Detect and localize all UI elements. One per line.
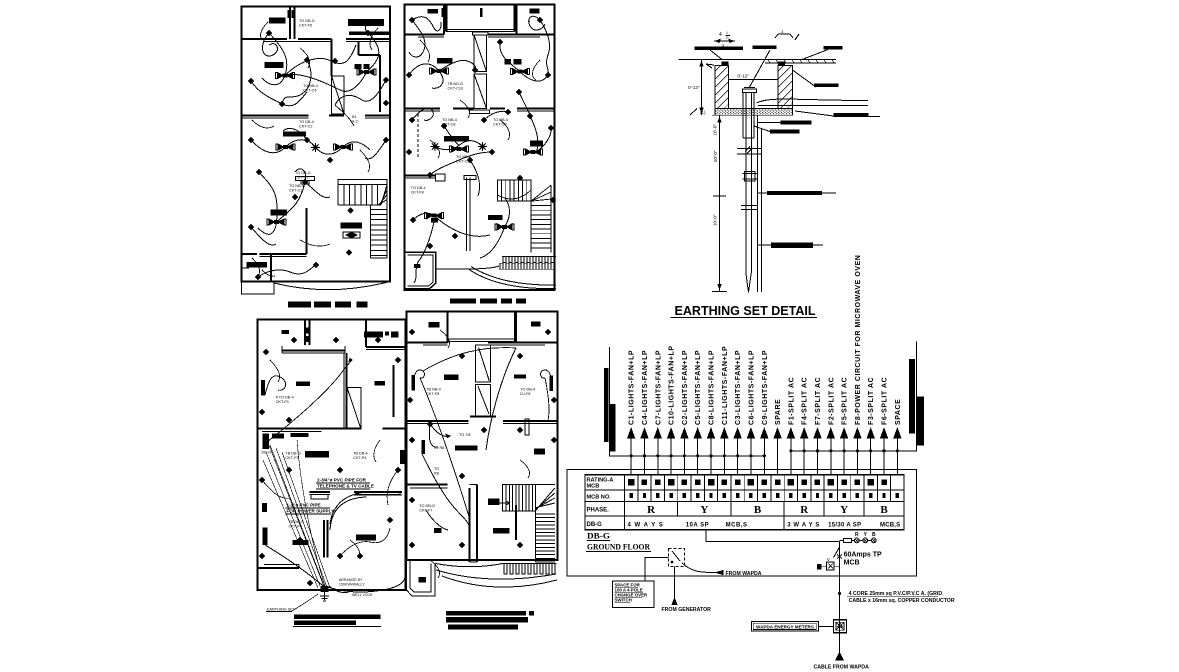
svg-text:F8-POWER CIRCUIT FOR MICROWAVE: F8-POWER CIRCUIT FOR MICROWAVE OVEN — [855, 255, 862, 425]
svg-text:CKT-C8: CKT-C8 — [442, 123, 456, 127]
top label bar right — [824, 46, 843, 50]
pipe taper point — [746, 273, 752, 293]
pit left wall (hatched) — [715, 66, 729, 109]
svg-text:Y: Y — [840, 504, 848, 516]
svg-text:Y: Y — [700, 504, 708, 516]
plan3 title bars — [294, 615, 380, 620]
circuit SPACE arrow — [896, 438, 898, 475]
plan1 ceiling fan F3 — [276, 144, 295, 150]
svg-text:TB NB-9: TB NB-9 — [426, 388, 441, 392]
plan3 entry walls top — [304, 320, 306, 346]
svg-text:TB ND-G: TB ND-G — [448, 82, 464, 86]
incoming cable arrow — [836, 653, 844, 661]
svg-text:MCB,S: MCB,S — [880, 523, 900, 529]
svg-text:WAPDA ENERGY METERS: WAPDA ENERGY METERS — [756, 624, 814, 629]
svg-text:10'-0": 10'-0" — [713, 124, 718, 136]
circuit F2 arrow — [830, 438, 832, 475]
circuit C11 arrow — [723, 438, 725, 475]
circuit F5 arrow — [843, 438, 845, 475]
plan1 outer wall — [242, 7, 391, 282]
plan2 top-right room — [516, 5, 518, 35]
plan3 top-right room — [365, 320, 367, 348]
plan2 porch columns — [444, 5, 448, 32]
svg-text:R: R — [647, 504, 656, 516]
circuit C7 arrow — [657, 438, 659, 475]
plan2 mid wall — [405, 108, 441, 110]
left dim 0-13 — [701, 60, 703, 116]
svg-text:C9-LIGHTS-FAN+LP: C9-LIGHTS-FAN+LP — [762, 350, 769, 425]
break symbol — [737, 149, 761, 155]
svg-text:R8: R8 — [434, 472, 439, 476]
60A TP MCB breaker — [834, 547, 840, 558]
plan3 mid wall 1 — [258, 428, 346, 430]
label bar: gi pipe — [767, 191, 822, 195]
plan3 earthing leader — [265, 545, 322, 585]
plan3 switch diamonds — [264, 350, 269, 355]
svg-text:A.C: A.C — [352, 120, 359, 124]
svg-text:TO DB-4: TO DB-4 — [411, 186, 426, 190]
circuit SPARE arrow — [777, 438, 779, 475]
svg-text:CKT-C2: CKT-C2 — [299, 125, 313, 129]
plan1 wiring — [262, 33, 277, 56]
svg-text:TO: TO — [434, 467, 439, 471]
svg-text:C7-LIGHTS-FAN+LP: C7-LIGHTS-FAN+LP — [655, 350, 662, 425]
fuse symbol — [844, 538, 852, 542]
plan1 entrance arc — [274, 282, 390, 290]
svg-text:C1-LIGHTS-FAN+LP: C1-LIGHTS-FAN+LP — [629, 350, 636, 425]
svg-text:4: 4 — [719, 32, 722, 38]
plan3 earth pit symbol — [321, 586, 329, 592]
svg-text:TB DB-G: TB DB-G — [289, 520, 304, 524]
svg-text:MCB: MCB — [844, 560, 860, 567]
R Y B phase links — [854, 538, 859, 543]
svg-text:CKT-F3: CKT-F3 — [285, 456, 298, 460]
plan1 wall: right room — [359, 54, 381, 56]
svg-text:TB DB-4: TB DB-4 — [353, 452, 368, 456]
wapda energy meter label box — [751, 621, 818, 631]
plan3 hall vertical wall — [346, 353, 348, 429]
plan4 lower-left partition — [407, 484, 448, 486]
floor plan: first floor power layout (bottom-right) — [407, 312, 558, 630]
plan3 kitchen counter — [291, 433, 309, 437]
plan3 curved wall arcs — [330, 492, 367, 524]
plan1 ceiling fan F2 — [357, 69, 376, 75]
plan1 title bars — [288, 302, 311, 308]
feeder riser bars left — [604, 368, 609, 442]
svg-text:F5-SPLIT AC: F5-SPLIT AC — [842, 377, 849, 425]
plan3 outer wall — [258, 320, 406, 591]
cable spec note — [838, 592, 841, 595]
svg-text:TO DB-G: TO DB-G — [419, 504, 435, 508]
right riser wire — [790, 342, 916, 451]
plan4 left porch — [407, 560, 436, 596]
plan1 wall: upper corridor — [242, 38, 288, 40]
svg-text:2: 2 — [726, 36, 728, 40]
svg-text:0'-12": 0'-12" — [738, 74, 750, 79]
table column lines — [637, 475, 639, 502]
svg-text:TO DB-G: TO DB-G — [299, 19, 315, 23]
meter CT symbols — [827, 562, 835, 570]
plan3 lower vertical wall — [323, 520, 325, 558]
space for change over switch note box — [613, 581, 655, 608]
circuit C5 arrow — [697, 438, 699, 475]
plan1 light point — [311, 143, 320, 152]
svg-text:TO 7/8: TO 7/8 — [459, 433, 471, 437]
label bar: earth rod — [771, 242, 813, 248]
svg-text:TO NB-4: TO NB-4 — [303, 84, 318, 88]
svg-text:TO DB-4: TO DB-4 — [299, 120, 314, 124]
svg-text:CKT-F5: CKT-F5 — [299, 24, 312, 28]
plan2 outer wall — [405, 5, 555, 291]
plan4 furniture blocks — [429, 322, 440, 328]
svg-text:50'-0": 50'-0" — [713, 150, 718, 162]
earth rod pipe — [745, 93, 747, 273]
circuit F3 arrow — [870, 438, 872, 475]
svg-text:TO NB-4: TO NB-4 — [456, 155, 471, 159]
svg-text:WELL LOCK: WELL LOCK — [352, 593, 373, 597]
plan1 small door marks — [288, 10, 290, 18]
plan3 left wall door blocks — [261, 380, 265, 396]
plan1 wall: top-left room — [289, 7, 291, 40]
plan3 DB-G unit — [263, 434, 270, 450]
ground line — [679, 59, 837, 61]
svg-text:B: B — [754, 504, 762, 516]
plan3 wiring — [265, 376, 286, 395]
earthing set detail — [671, 29, 881, 318]
svg-text:TO NB-4: TO NB-4 — [442, 118, 457, 122]
plan3 extra wires — [340, 528, 390, 556]
svg-text:B: B — [880, 504, 888, 516]
svg-text:DB-G: DB-G — [587, 532, 610, 541]
svg-text:15/30 A SP: 15/30 A SP — [828, 523, 861, 529]
plan2 stair shaft upper — [473, 32, 489, 35]
plan1 tv symbol — [343, 232, 360, 238]
svg-text:CKT-F8: CKT-F8 — [426, 392, 439, 396]
svg-text:10A SP: 10A SP — [686, 523, 709, 529]
svg-text:B1: B1 — [352, 115, 357, 119]
circuit F7 arrow — [816, 438, 818, 475]
svg-text:F3-SPLIT AC: F3-SPLIT AC — [868, 377, 875, 425]
link to space box — [645, 557, 669, 581]
svg-text:MCB NO.: MCB NO. — [587, 494, 612, 500]
left riser wire — [609, 347, 764, 456]
plan4 mid wall — [407, 420, 469, 422]
svg-text:R: R — [855, 532, 859, 538]
circuit C1 arrow — [630, 438, 632, 475]
svg-text:2-3/4"ø PVC PIPE FOR: 2-3/4"ø PVC PIPE FOR — [317, 478, 367, 483]
plan3 door leaf — [347, 388, 361, 430]
svg-text:B: B — [872, 532, 876, 538]
plan3 converging supply lines — [267, 440, 323, 584]
svg-text:RATING-A: RATING-A — [587, 477, 614, 483]
plan4 top-right room — [515, 312, 517, 344]
plan1 switch diamonds — [348, 208, 353, 213]
pit right wall (hatched) — [778, 66, 793, 109]
svg-text:150KVA/WALLY: 150KVA/WALLY — [339, 582, 365, 586]
plan2 bottom-left store — [405, 252, 436, 288]
bore lines — [757, 115, 759, 292]
plan1 bottom step — [242, 282, 275, 295]
svg-text:SPACE: SPACE — [895, 399, 902, 425]
svg-text:C3-LIGHTS-FAN+LP: C3-LIGHTS-FAN+LP — [735, 350, 742, 425]
circuit C8 arrow — [710, 438, 712, 475]
plan4 veranda arcs — [436, 564, 503, 567]
plan2 lower-left partition — [405, 175, 436, 177]
plan3 mid wall 2 — [309, 491, 330, 493]
plan2 stair shaft lower — [474, 74, 487, 109]
from wapda lead — [682, 563, 716, 573]
plan4 veranda crenellation — [504, 564, 555, 575]
circuit F6 arrow — [883, 438, 885, 475]
svg-text:4 W A Y S: 4 W A Y S — [628, 523, 664, 529]
svg-text:P.TO DB-4: P.TO DB-4 — [276, 396, 294, 400]
circuit F4 arrow — [803, 438, 805, 475]
svg-text:C6-LIGHTS-FAN+LP: C6-LIGHTS-FAN+LP — [748, 350, 755, 425]
svg-text:1: 1 — [726, 31, 728, 35]
coupling — [745, 172, 756, 182]
plan1 ceiling fan F4 — [334, 144, 353, 150]
plan4 stair arrow — [496, 501, 510, 505]
svg-text:CKT-F8: CKT-F8 — [411, 191, 424, 195]
plan4 closet — [525, 419, 529, 435]
plan2 veranda arcs — [436, 266, 499, 269]
schedule table — [585, 475, 904, 530]
plan4 stair shaft — [476, 345, 491, 382]
svg-text:3 W A Y S: 3 W A Y S — [787, 523, 820, 529]
plan2 porch — [447, 5, 515, 32]
pit inner dim 0-12 — [729, 79, 779, 81]
generator lead — [674, 567, 676, 604]
circuit F8 arrow — [856, 438, 858, 475]
plan3 furniture blocks — [282, 330, 289, 334]
plan1 ceiling fan F1 — [276, 73, 295, 79]
changeover switch dashed box — [669, 549, 685, 567]
svg-text:C8-LIGHTS-FAN+LP: C8-LIGHTS-FAN+LP — [709, 350, 716, 425]
plan4 lower vertical wall — [468, 488, 470, 562]
svg-text:EARTHING SET DETAIL: EARTHING SET DETAIL — [675, 304, 816, 318]
feeder riser bars right — [909, 359, 915, 434]
plan1 wall: top-right partition — [346, 38, 390, 40]
svg-text:CKT-C1: CKT-C1 — [289, 189, 303, 193]
pit wall top blocks — [722, 62, 729, 66]
svg-text:TO DB-4: TO DB-4 — [520, 388, 535, 392]
plan2 stair lower run — [530, 201, 532, 252]
circuit C9 arrow — [763, 438, 765, 475]
phase group separators — [677, 502, 679, 517]
plan2 ceiling fans — [430, 68, 449, 74]
schedule outer box — [567, 469, 917, 576]
plan2 corridor wall — [466, 178, 468, 252]
svg-text:EARTHING SET: EARTHING SET — [267, 608, 296, 612]
energy meter symbol — [834, 620, 847, 633]
plan1 wall: lower-left room — [306, 208, 308, 254]
funnel leader long right — [757, 99, 869, 103]
plan2 title bars — [450, 299, 476, 304]
plan4 outer wall — [407, 312, 558, 561]
plan2 light points — [431, 142, 440, 151]
svg-text:F4-SPLIT AC: F4-SPLIT AC — [802, 377, 809, 425]
svg-text:CKT-C8: CKT-C8 — [493, 123, 507, 127]
plan3 top-left partition — [282, 350, 345, 352]
floor plan: first floor lighting layout (top-right) — [405, 5, 557, 304]
svg-text:F7-SPLIT AC: F7-SPLIT AC — [815, 377, 822, 425]
svg-text:C4-LIGHTS-FAN+LP: C4-LIGHTS-FAN+LP — [642, 350, 649, 425]
plan2 dashed conduit — [417, 114, 419, 157]
svg-text:CKT-P4: CKT-P4 — [353, 456, 366, 460]
main bus vertical — [839, 542, 841, 561]
incoming single line diagram — [613, 530, 955, 671]
plan1 door leaf with diagonal — [332, 76, 345, 114]
svg-text:FROM GENERATOR: FROM GENERATOR — [662, 607, 712, 613]
funnel cap — [743, 89, 757, 93]
circuit C3 arrow — [737, 438, 739, 475]
plan4 wiring — [414, 370, 424, 378]
circuit C6 arrow — [750, 438, 752, 475]
svg-text:GROUND FLOOR: GROUND FLOOR — [587, 543, 650, 552]
svg-text:TO DB-G: TO DB-G — [295, 171, 311, 175]
dim arrow tick — [706, 64, 714, 68]
dim 3 inch leader — [775, 34, 799, 40]
svg-text:10'-0": 10'-0" — [713, 214, 718, 226]
svg-text:CKT-C10: CKT-C10 — [448, 87, 464, 91]
svg-text:CKT-C4: CKT-C4 — [303, 89, 317, 93]
label bar: earth wire — [770, 130, 800, 134]
top label bar left — [695, 47, 744, 51]
svg-text:0'-13": 0'-13" — [688, 85, 700, 90]
svg-text:MCB,S: MCB,S — [726, 523, 748, 529]
svg-text:TELEPHONE & TV CABLE: TELEPHONE & TV CABLE — [317, 484, 374, 489]
circuit F1 arrow — [790, 438, 792, 475]
feeder from table to main — [706, 530, 840, 542]
left long dim line — [719, 115, 721, 291]
plan1 ceiling fan F5 — [267, 219, 286, 225]
pavement line right — [765, 62, 836, 64]
svg-text:SWITCH: SWITCH — [615, 598, 632, 603]
circuit C2 arrow — [683, 438, 685, 475]
top label bar mid — [753, 46, 777, 50]
svg-text:(1): (1) — [700, 110, 706, 115]
svg-text:F1-SPLIT AC: F1-SPLIT AC — [788, 377, 795, 425]
plan2 wiring — [409, 20, 425, 57]
plan1 wall: hall vertical — [331, 39, 333, 76]
svg-text:TO NB-4: TO NB-4 — [493, 118, 508, 122]
floor plan: ground floor lighting layout (top-left) — [242, 7, 392, 308]
svg-text:DJ-F6: DJ-F6 — [520, 392, 530, 396]
plan1 wall: bottom-left wc — [242, 253, 258, 255]
circuit C10 arrow — [670, 438, 672, 475]
svg-text:C11-LIGHTS-FAN+LP: C11-LIGHTS-FAN+LP — [722, 346, 729, 425]
svg-text:PHASE.: PHASE. — [587, 508, 610, 514]
svg-text:F6-SPLIT AC: F6-SPLIT AC — [882, 377, 889, 425]
plan2 stair upper flight — [498, 180, 531, 201]
svg-text:TO NB-4: TO NB-4 — [289, 184, 304, 188]
label bar: earth plate right — [814, 84, 839, 88]
label bar: gravel — [834, 113, 869, 117]
plan4 switch diamonds — [410, 330, 415, 335]
plan2 door marks — [442, 8, 445, 17]
plan1 staircase — [338, 180, 387, 185]
svg-text:CABLE FROM WAPDA: CABLE FROM WAPDA — [814, 665, 870, 671]
plan2 veranda crenellation — [502, 257, 556, 263]
svg-text:CABLE x 16mm sq. COPPER CONDUC: CABLE x 16mm sq. COPPER CONDUCTOR — [849, 598, 955, 604]
plan2 top-left room — [443, 5, 445, 35]
plan1 table symbol — [296, 177, 315, 181]
plan2 switch diamonds — [410, 18, 415, 23]
label bar: pvc pipe — [781, 121, 812, 125]
plan3 bottom-left room — [258, 567, 300, 569]
main cable down — [839, 560, 841, 654]
plan4 wall black blocks — [411, 375, 414, 391]
svg-text:SPARE: SPARE — [775, 399, 782, 425]
plan2 stair winder — [531, 185, 551, 201]
plan4 porch — [448, 312, 515, 342]
mcb no squares — [630, 493, 633, 498]
circuit C4 arrow — [643, 438, 645, 475]
joint lines — [741, 205, 758, 207]
distribution board DB-G schedule — [567, 255, 924, 577]
svg-text:V: V — [827, 557, 830, 562]
floor plan: ground floor power layout (bottom-left) — [258, 320, 406, 627]
rating squares — [628, 479, 635, 486]
plan4 stairs — [503, 485, 536, 511]
svg-text:CKT-P1: CKT-P1 — [276, 400, 289, 404]
svg-text:C2-LIGHTS-FAN+LP: C2-LIGHTS-FAN+LP — [682, 350, 689, 425]
plan2 furniture blocks — [428, 9, 439, 14]
svg-text:C10-LIGHTS-FAN+LP: C10-LIGHTS-FAN+LP — [669, 345, 676, 425]
svg-text:DB-G: DB-G — [587, 522, 603, 528]
svg-text:R: R — [800, 504, 809, 516]
svg-text:C5-LIGHTS-FAN+LP: C5-LIGHTS-FAN+LP — [695, 350, 702, 425]
svg-text:60Amps TP: 60Amps TP — [844, 552, 882, 559]
svg-text:F2-SPLIT AC: F2-SPLIT AC — [828, 377, 835, 425]
plan1 furniture blocks — [269, 18, 286, 24]
earth pipe upper casing — [742, 93, 744, 139]
svg-text:FROM WAPDA: FROM WAPDA — [726, 571, 762, 577]
svg-text:CKT-C9: CKT-C9 — [456, 160, 470, 164]
plan1 wall: mid horizontal — [242, 115, 309, 117]
plan3 right wall lower — [393, 365, 395, 417]
gravel layer — [715, 109, 793, 116]
plan4 top-left room — [447, 312, 449, 344]
svg-text:MCB: MCB — [587, 484, 600, 490]
svg-text:CKT-C1: CKT-C1 — [295, 176, 309, 180]
plan4 title bars — [446, 611, 526, 615]
